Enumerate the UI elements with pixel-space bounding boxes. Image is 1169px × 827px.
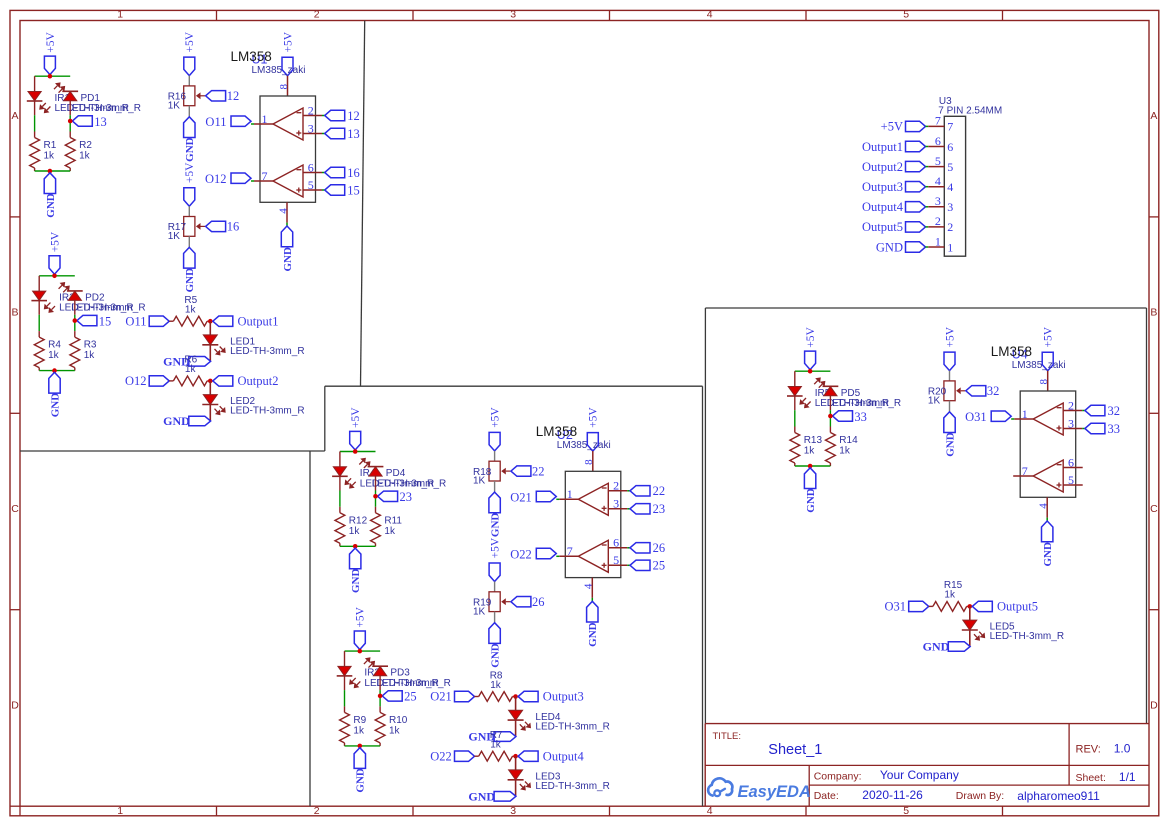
- svg-text:25: 25: [404, 690, 417, 704]
- IR LED IR3: [337, 666, 381, 688]
- wire: [949, 371, 951, 381]
- svg-text:1k: 1k: [384, 526, 396, 537]
- net port Output4 (U3 pin 3): [862, 200, 925, 214]
- svg-text:LM385_zaki: LM385_zaki: [1012, 360, 1066, 371]
- IR LED IR4: [332, 467, 376, 489]
- svg-text:32: 32: [987, 384, 1000, 398]
- wire: [379, 690, 381, 706]
- svg-text:LM358: LM358: [536, 424, 577, 439]
- power flag +5V (IR3/PD3 bridge): [354, 606, 366, 649]
- svg-text:1: 1: [935, 234, 941, 248]
- junction: [358, 649, 363, 654]
- svg-text:8: 8: [583, 459, 595, 465]
- junction: [208, 379, 213, 384]
- ground: [49, 372, 62, 417]
- pin 3: [608, 497, 627, 511]
- wire: [35, 75, 71, 77]
- resistor R15 1k: [929, 580, 970, 611]
- svg-text:1: 1: [567, 487, 573, 501]
- pin 2: [303, 103, 322, 117]
- power flag +5V (pin 8 U2): [587, 407, 599, 452]
- op-amp U2 amp A triangle: [578, 483, 608, 515]
- svg-text:LED-TH-3mm_R: LED-TH-3mm_R: [67, 103, 141, 114]
- pin 6: [608, 536, 627, 550]
- group box sensor2 top edge: [325, 385, 703, 387]
- svg-text:7: 7: [935, 114, 941, 128]
- border column tick: [216, 10, 218, 20]
- svg-text:1k: 1k: [185, 305, 197, 316]
- svg-text:LED-TH-3mm_R: LED-TH-3mm_R: [827, 398, 901, 409]
- wire: [339, 491, 341, 507]
- wire: [322, 189, 325, 191]
- net port 16: [206, 220, 240, 234]
- svg-text:LM358: LM358: [991, 344, 1032, 359]
- svg-text:3: 3: [613, 497, 619, 511]
- svg-text:+5V: +5V: [1043, 326, 1055, 347]
- group box sensor1 right edge: [361, 21, 365, 387]
- svg-text:32: 32: [1108, 404, 1121, 418]
- svg-text:3: 3: [935, 194, 941, 208]
- op-amp U1 amp A triangle: [273, 108, 303, 140]
- svg-text:GND: GND: [184, 137, 196, 162]
- svg-text:1k: 1k: [389, 725, 401, 736]
- group box sensor3 right edge: [1146, 308, 1148, 724]
- LED LED4: [508, 710, 610, 732]
- svg-text:1: 1: [117, 9, 123, 21]
- svg-text:+5V: +5V: [49, 231, 61, 252]
- net port Output2 (U3 pin 5): [862, 160, 925, 174]
- svg-text:1K: 1K: [928, 395, 941, 406]
- svg-text:22: 22: [532, 464, 545, 478]
- svg-text:1k: 1k: [490, 680, 502, 691]
- power flag +5V (IR5/PD5 bridge): [805, 326, 817, 369]
- pin 7: [254, 169, 273, 183]
- wire: [515, 780, 517, 797]
- svg-text:GND: GND: [923, 640, 950, 654]
- svg-text:O11: O11: [205, 115, 226, 129]
- svg-text:12: 12: [347, 109, 360, 123]
- pin 5: [1063, 473, 1083, 487]
- power flag +5V (R16 chain): [184, 31, 196, 75]
- svg-text:R3: R3: [84, 340, 97, 351]
- pin 1: [1014, 407, 1033, 421]
- photodiode PD4: [359, 458, 405, 479]
- svg-text:16: 16: [227, 220, 240, 234]
- wire: [795, 465, 831, 467]
- wire: [515, 756, 517, 770]
- wire: [344, 676, 346, 690]
- wire: [494, 612, 496, 623]
- net port +5V (U3 pin 7): [881, 120, 926, 134]
- IR LED IR1: [27, 92, 71, 114]
- resistor R10: [375, 706, 408, 746]
- svg-text:1k: 1k: [84, 350, 96, 361]
- wire: [627, 508, 630, 510]
- junction: [73, 318, 78, 323]
- wire: [591, 598, 593, 601]
- svg-text:+5V: +5V: [490, 537, 502, 558]
- junction: [48, 169, 53, 174]
- ground: [350, 548, 363, 593]
- wire: [345, 745, 381, 747]
- net port Output5 (U3 pin 2): [862, 220, 925, 234]
- svg-text:A: A: [11, 110, 18, 122]
- wire: [322, 115, 325, 117]
- svg-text:22: 22: [653, 484, 666, 498]
- pin 7: [559, 544, 578, 558]
- wire: [494, 451, 496, 461]
- op-amp U2 body: [565, 471, 621, 577]
- svg-text:Your Company: Your Company: [880, 768, 959, 782]
- wire: [188, 76, 190, 86]
- net port 23: [630, 502, 665, 516]
- svg-text:1k: 1k: [79, 151, 91, 162]
- svg-text:7 PIN 2.54MM: 7 PIN 2.54MM: [938, 106, 1002, 117]
- svg-text:LED-TH-3mm_R: LED-TH-3mm_R: [535, 781, 609, 792]
- junction: [808, 369, 813, 374]
- pin 7: [1013, 464, 1033, 478]
- junction: [808, 464, 813, 469]
- svg-text:EasyEDA: EasyEDA: [738, 783, 811, 801]
- svg-text:C: C: [1150, 503, 1158, 515]
- svg-text:B: B: [11, 306, 18, 318]
- wire: [969, 630, 971, 647]
- svg-text:5: 5: [935, 154, 941, 168]
- svg-text:Output4: Output4: [543, 749, 585, 763]
- svg-text:LED-TH-3mm_R: LED-TH-3mm_R: [71, 303, 145, 314]
- wire: [1046, 518, 1048, 521]
- wire: [556, 555, 559, 557]
- ground: [468, 789, 515, 803]
- svg-text:2: 2: [1068, 398, 1074, 412]
- net port O31: [965, 410, 1011, 424]
- svg-text:1k: 1k: [839, 446, 851, 457]
- svg-text:7: 7: [1022, 464, 1028, 478]
- net port Output1 (U3 pin 6): [862, 140, 925, 154]
- svg-text:GND: GND: [163, 414, 190, 428]
- net port 12: [325, 109, 360, 123]
- svg-text:1k: 1k: [349, 526, 361, 537]
- svg-text:R9: R9: [353, 715, 366, 726]
- op-amp U2 amp B triangle: [578, 540, 608, 572]
- pin 3: [1063, 416, 1082, 430]
- junction: [353, 544, 358, 549]
- pin 2: [608, 479, 627, 493]
- svg-text:R14: R14: [839, 435, 858, 446]
- svg-text:+5V: +5V: [350, 407, 362, 428]
- svg-text:GND: GND: [350, 569, 362, 594]
- net port O11: [125, 314, 169, 328]
- svg-text:B: B: [1150, 306, 1157, 318]
- border row tick: [10, 609, 20, 611]
- svg-text:7: 7: [262, 169, 268, 183]
- wire: [340, 545, 376, 547]
- junction: [513, 754, 518, 759]
- LED LED1: [202, 335, 304, 357]
- svg-text:O21: O21: [430, 690, 452, 704]
- wire: [340, 451, 376, 453]
- junction: [828, 414, 833, 419]
- svg-text:GND: GND: [805, 488, 817, 513]
- svg-text:Output5: Output5: [997, 600, 1038, 614]
- connector U3 body: [944, 116, 965, 256]
- svg-text:6: 6: [613, 536, 619, 550]
- svg-text:4: 4: [277, 208, 289, 214]
- svg-text:1: 1: [262, 112, 268, 126]
- net port Output1: [213, 314, 279, 328]
- svg-text:4: 4: [1038, 503, 1050, 509]
- junction: [968, 604, 973, 609]
- svg-text:Output2: Output2: [862, 160, 903, 174]
- wire: [627, 490, 630, 492]
- op-amp U1 body: [260, 96, 316, 202]
- ground: [489, 623, 502, 668]
- photodiode PD3: [364, 657, 410, 678]
- svg-text:D: D: [1150, 699, 1158, 711]
- svg-text:Sheet_1: Sheet_1: [768, 742, 822, 758]
- EasyEDA logo: [708, 778, 811, 801]
- svg-text:33: 33: [1108, 422, 1121, 436]
- svg-text:GND: GND: [49, 393, 61, 418]
- net port 12: [206, 89, 240, 103]
- wire: [1082, 428, 1085, 430]
- svg-text:4: 4: [707, 9, 713, 21]
- net port Output5: [972, 600, 1038, 614]
- svg-text:1k: 1k: [44, 151, 56, 162]
- ground: [489, 492, 502, 537]
- wire: [379, 676, 381, 690]
- wire: [322, 133, 325, 135]
- net port 23: [378, 490, 412, 504]
- svg-text:Output3: Output3: [543, 690, 584, 704]
- net port Output3 (U3 pin 4): [862, 180, 925, 194]
- svg-text:GND: GND: [45, 193, 57, 218]
- junction: [68, 119, 73, 124]
- wire: [627, 564, 630, 566]
- svg-text:GND: GND: [876, 240, 903, 254]
- ground (pin 4 U4): [1042, 521, 1055, 567]
- wire: [69, 115, 71, 131]
- svg-text:GND: GND: [355, 768, 367, 793]
- svg-text:1k: 1k: [185, 364, 197, 375]
- svg-text:+5V: +5V: [355, 606, 367, 627]
- svg-text:12: 12: [227, 89, 240, 103]
- resistor R1: [30, 132, 57, 172]
- svg-text:1k: 1k: [490, 740, 502, 751]
- pin 1: [926, 234, 954, 254]
- svg-text:Output2: Output2: [238, 374, 279, 388]
- net port O12: [205, 172, 251, 186]
- svg-text:R13: R13: [804, 435, 823, 446]
- svg-text:+5V: +5V: [490, 407, 502, 428]
- power flag +5V (R17 chain): [184, 162, 196, 206]
- svg-text:6: 6: [947, 140, 953, 154]
- svg-text:1: 1: [947, 240, 953, 254]
- resistor R2: [65, 132, 92, 172]
- svg-text:C: C: [11, 503, 19, 515]
- svg-text:2: 2: [308, 103, 314, 117]
- LED LED2: [202, 395, 304, 417]
- wire: [74, 301, 76, 315]
- power flag +5V (R20 chain): [944, 326, 956, 370]
- border band closing segments: [10, 805, 20, 807]
- net port 15: [325, 183, 360, 197]
- IR LED IR5: [787, 387, 831, 409]
- svg-text:Sheet:: Sheet:: [1076, 772, 1106, 784]
- wire: [515, 720, 517, 737]
- svg-text:O12: O12: [205, 172, 227, 186]
- svg-text:1K: 1K: [473, 476, 486, 487]
- svg-text:1k: 1k: [804, 446, 816, 457]
- group box sensor3 left edge: [704, 308, 706, 724]
- svg-text:+5V: +5V: [805, 326, 817, 347]
- ground (pin 4 U1): [281, 226, 294, 272]
- wire: [188, 106, 190, 117]
- svg-text:R12: R12: [349, 515, 368, 526]
- border column tick: [1002, 10, 1004, 20]
- wire: [375, 491, 377, 507]
- svg-text:7: 7: [567, 544, 573, 558]
- wire: [322, 172, 325, 174]
- net port GND (U3 pin 1): [876, 240, 926, 254]
- net port O21: [510, 490, 556, 504]
- svg-text:7: 7: [947, 120, 953, 134]
- svg-text:8: 8: [1038, 379, 1050, 385]
- border column tick: [609, 10, 611, 20]
- junction: [358, 744, 363, 749]
- svg-text:Drawn By:: Drawn By:: [956, 790, 1004, 802]
- svg-text:26: 26: [653, 541, 666, 555]
- wire: [627, 547, 630, 549]
- group box sensor3 top edge: [705, 307, 1146, 309]
- wire: [1011, 418, 1014, 420]
- wire: [35, 170, 71, 172]
- svg-text:2: 2: [935, 214, 941, 228]
- svg-text:1k: 1k: [48, 350, 60, 361]
- svg-text:O11: O11: [125, 314, 146, 328]
- svg-text:O22: O22: [510, 547, 532, 561]
- svg-text:LED-TH-3mm_R: LED-TH-3mm_R: [990, 631, 1064, 642]
- svg-text:23: 23: [400, 490, 413, 504]
- ground: [944, 412, 957, 457]
- IR LED IR2: [31, 291, 75, 313]
- wire: [339, 452, 341, 467]
- border column tick: [805, 10, 807, 20]
- svg-text:+5V: +5V: [881, 120, 903, 134]
- net port 32: [1085, 404, 1120, 418]
- svg-text:1: 1: [1022, 407, 1028, 421]
- junction: [378, 694, 383, 699]
- svg-text:4: 4: [935, 174, 941, 188]
- wire: [795, 370, 831, 372]
- wire: [34, 115, 36, 131]
- svg-text:LM385_zaki: LM385_zaki: [557, 440, 611, 451]
- net port 22: [511, 464, 545, 478]
- pin 6: [303, 160, 322, 174]
- svg-text:Output3: Output3: [862, 180, 903, 194]
- power flag +5V (pin 8 U1): [282, 31, 294, 76]
- wire: [286, 223, 288, 226]
- wire: [829, 410, 831, 426]
- group box sensor2 right edge: [702, 386, 704, 806]
- svg-text:+5V: +5V: [45, 31, 57, 52]
- pin 4: [277, 202, 289, 222]
- photodiode PD2: [59, 282, 105, 303]
- ground: [163, 354, 210, 368]
- svg-text:O31: O31: [884, 600, 906, 614]
- svg-text:4: 4: [947, 180, 953, 194]
- pin 6: [1063, 455, 1083, 469]
- wire: [556, 498, 559, 500]
- net port O22: [510, 547, 556, 561]
- svg-text:1K: 1K: [168, 100, 181, 111]
- svg-text:O21: O21: [510, 490, 532, 504]
- svg-text:O22: O22: [430, 749, 452, 763]
- svg-text:3: 3: [510, 9, 516, 21]
- wire: [494, 582, 496, 592]
- resistor R4: [34, 331, 61, 371]
- svg-text:3: 3: [510, 805, 516, 817]
- svg-text:O12: O12: [125, 374, 147, 388]
- svg-text:1k: 1k: [353, 725, 365, 736]
- pin 3: [926, 194, 954, 214]
- svg-text:13: 13: [347, 127, 360, 141]
- svg-text:R10: R10: [389, 715, 408, 726]
- junction: [373, 494, 378, 499]
- pin 4: [1038, 497, 1050, 517]
- svg-text:2020-11-26: 2020-11-26: [862, 788, 923, 802]
- ground (pin 4 U2): [587, 601, 600, 647]
- wire: [949, 401, 951, 412]
- border column tick: [412, 10, 414, 20]
- pin 8: [278, 76, 290, 96]
- svg-text:2: 2: [947, 220, 953, 234]
- svg-text:GND: GND: [490, 513, 502, 538]
- ground: [923, 640, 970, 654]
- svg-text:2: 2: [613, 479, 619, 493]
- svg-text:GND: GND: [1042, 542, 1054, 567]
- pin 5: [926, 154, 954, 174]
- net port O21: [430, 690, 474, 704]
- resistor R14: [826, 427, 859, 467]
- svg-text:LED-TH-3mm_R: LED-TH-3mm_R: [230, 406, 304, 417]
- net port 33: [833, 410, 867, 424]
- pin 8: [583, 451, 595, 471]
- wire: [38, 315, 40, 331]
- net port 25: [382, 690, 416, 704]
- svg-text:LED-TH-3mm_R: LED-TH-3mm_R: [376, 678, 450, 689]
- svg-text:GND: GND: [490, 643, 502, 668]
- wire: [209, 321, 211, 335]
- net port 26: [630, 541, 665, 555]
- svg-text:5: 5: [613, 553, 619, 567]
- svg-text:TITLE:: TITLE:: [713, 731, 742, 742]
- wire: [344, 651, 346, 666]
- resistor R12: [335, 507, 368, 547]
- trimmer resistor R17 1K: [168, 217, 205, 243]
- ground: [184, 247, 197, 292]
- svg-text:5: 5: [903, 9, 909, 21]
- pin 7: [926, 114, 954, 134]
- net port O31: [884, 600, 928, 614]
- net port O11: [205, 115, 251, 129]
- junction: [513, 694, 518, 699]
- net port 16: [325, 166, 360, 180]
- svg-text:Output4: Output4: [862, 200, 904, 214]
- resistor R7 1k: [475, 730, 516, 761]
- power flag +5V (IR2/PD2 bridge): [49, 231, 61, 274]
- svg-text:2: 2: [314, 9, 320, 21]
